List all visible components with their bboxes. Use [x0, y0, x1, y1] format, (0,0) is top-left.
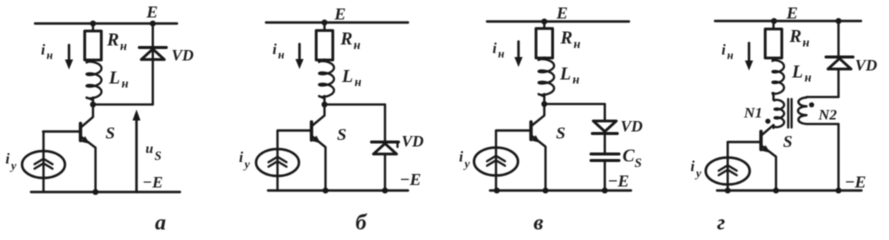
svg-text:E: E: [556, 4, 568, 23]
svg-text:L: L: [341, 66, 353, 86]
svg-text:N2: N2: [818, 108, 838, 124]
svg-text:i: i: [691, 159, 696, 175]
svg-text:н: н: [803, 36, 810, 50]
svg-text:y: y: [694, 166, 702, 180]
svg-text:R: R: [106, 30, 119, 50]
svg-text:i: i: [722, 43, 727, 59]
svg-text:i: i: [41, 43, 46, 59]
svg-text:S: S: [155, 149, 162, 163]
svg-text:L: L: [108, 68, 120, 88]
svg-text:VD: VD: [172, 48, 195, 65]
svg-text:E: E: [334, 5, 346, 24]
svg-text:−E: −E: [845, 173, 867, 192]
svg-text:−E: −E: [400, 170, 422, 189]
svg-text:н: н: [727, 50, 734, 62]
svg-text:i: i: [239, 150, 244, 166]
svg-text:y: y: [463, 157, 471, 171]
svg-text:L: L: [559, 64, 571, 84]
svg-text:S: S: [106, 124, 115, 143]
svg-text:н: н: [278, 50, 285, 62]
svg-text:VD: VD: [402, 134, 425, 151]
svg-text:y: y: [243, 157, 251, 171]
svg-text:VD: VD: [855, 58, 878, 75]
svg-text:E: E: [786, 4, 798, 23]
svg-text:г: г: [717, 210, 725, 235]
svg-text:N1: N1: [743, 106, 762, 122]
svg-text:н: н: [573, 73, 580, 87]
svg-text:S: S: [556, 124, 565, 143]
svg-text:н: н: [805, 71, 812, 85]
svg-text:н: н: [47, 50, 54, 62]
svg-text:−E: −E: [143, 175, 163, 192]
svg-text:i: i: [273, 42, 278, 58]
svg-text:i: i: [493, 41, 498, 57]
svg-text:R: R: [340, 29, 353, 49]
svg-text:н: н: [354, 38, 361, 52]
svg-text:L: L: [791, 62, 803, 82]
svg-text:E: E: [146, 3, 158, 22]
svg-text:в: в: [534, 210, 544, 235]
svg-text:н: н: [574, 37, 581, 51]
svg-text:a: a: [155, 210, 166, 235]
svg-text:u: u: [146, 142, 154, 157]
svg-text:i: i: [6, 152, 11, 168]
svg-text:VD: VD: [621, 119, 644, 136]
svg-text:R: R: [789, 26, 802, 46]
svg-text:i: i: [459, 150, 464, 166]
svg-text:S: S: [783, 132, 792, 151]
svg-text:н: н: [498, 49, 505, 61]
svg-text:S: S: [337, 125, 346, 144]
svg-text:н: н: [355, 75, 362, 89]
svg-text:−E: −E: [608, 172, 630, 191]
svg-text:y: y: [9, 159, 17, 173]
svg-text:б: б: [356, 210, 368, 235]
svg-text:н: н: [120, 39, 127, 53]
svg-text:S: S: [635, 155, 642, 170]
svg-text:R: R: [560, 28, 573, 48]
svg-text:н: н: [122, 77, 129, 91]
